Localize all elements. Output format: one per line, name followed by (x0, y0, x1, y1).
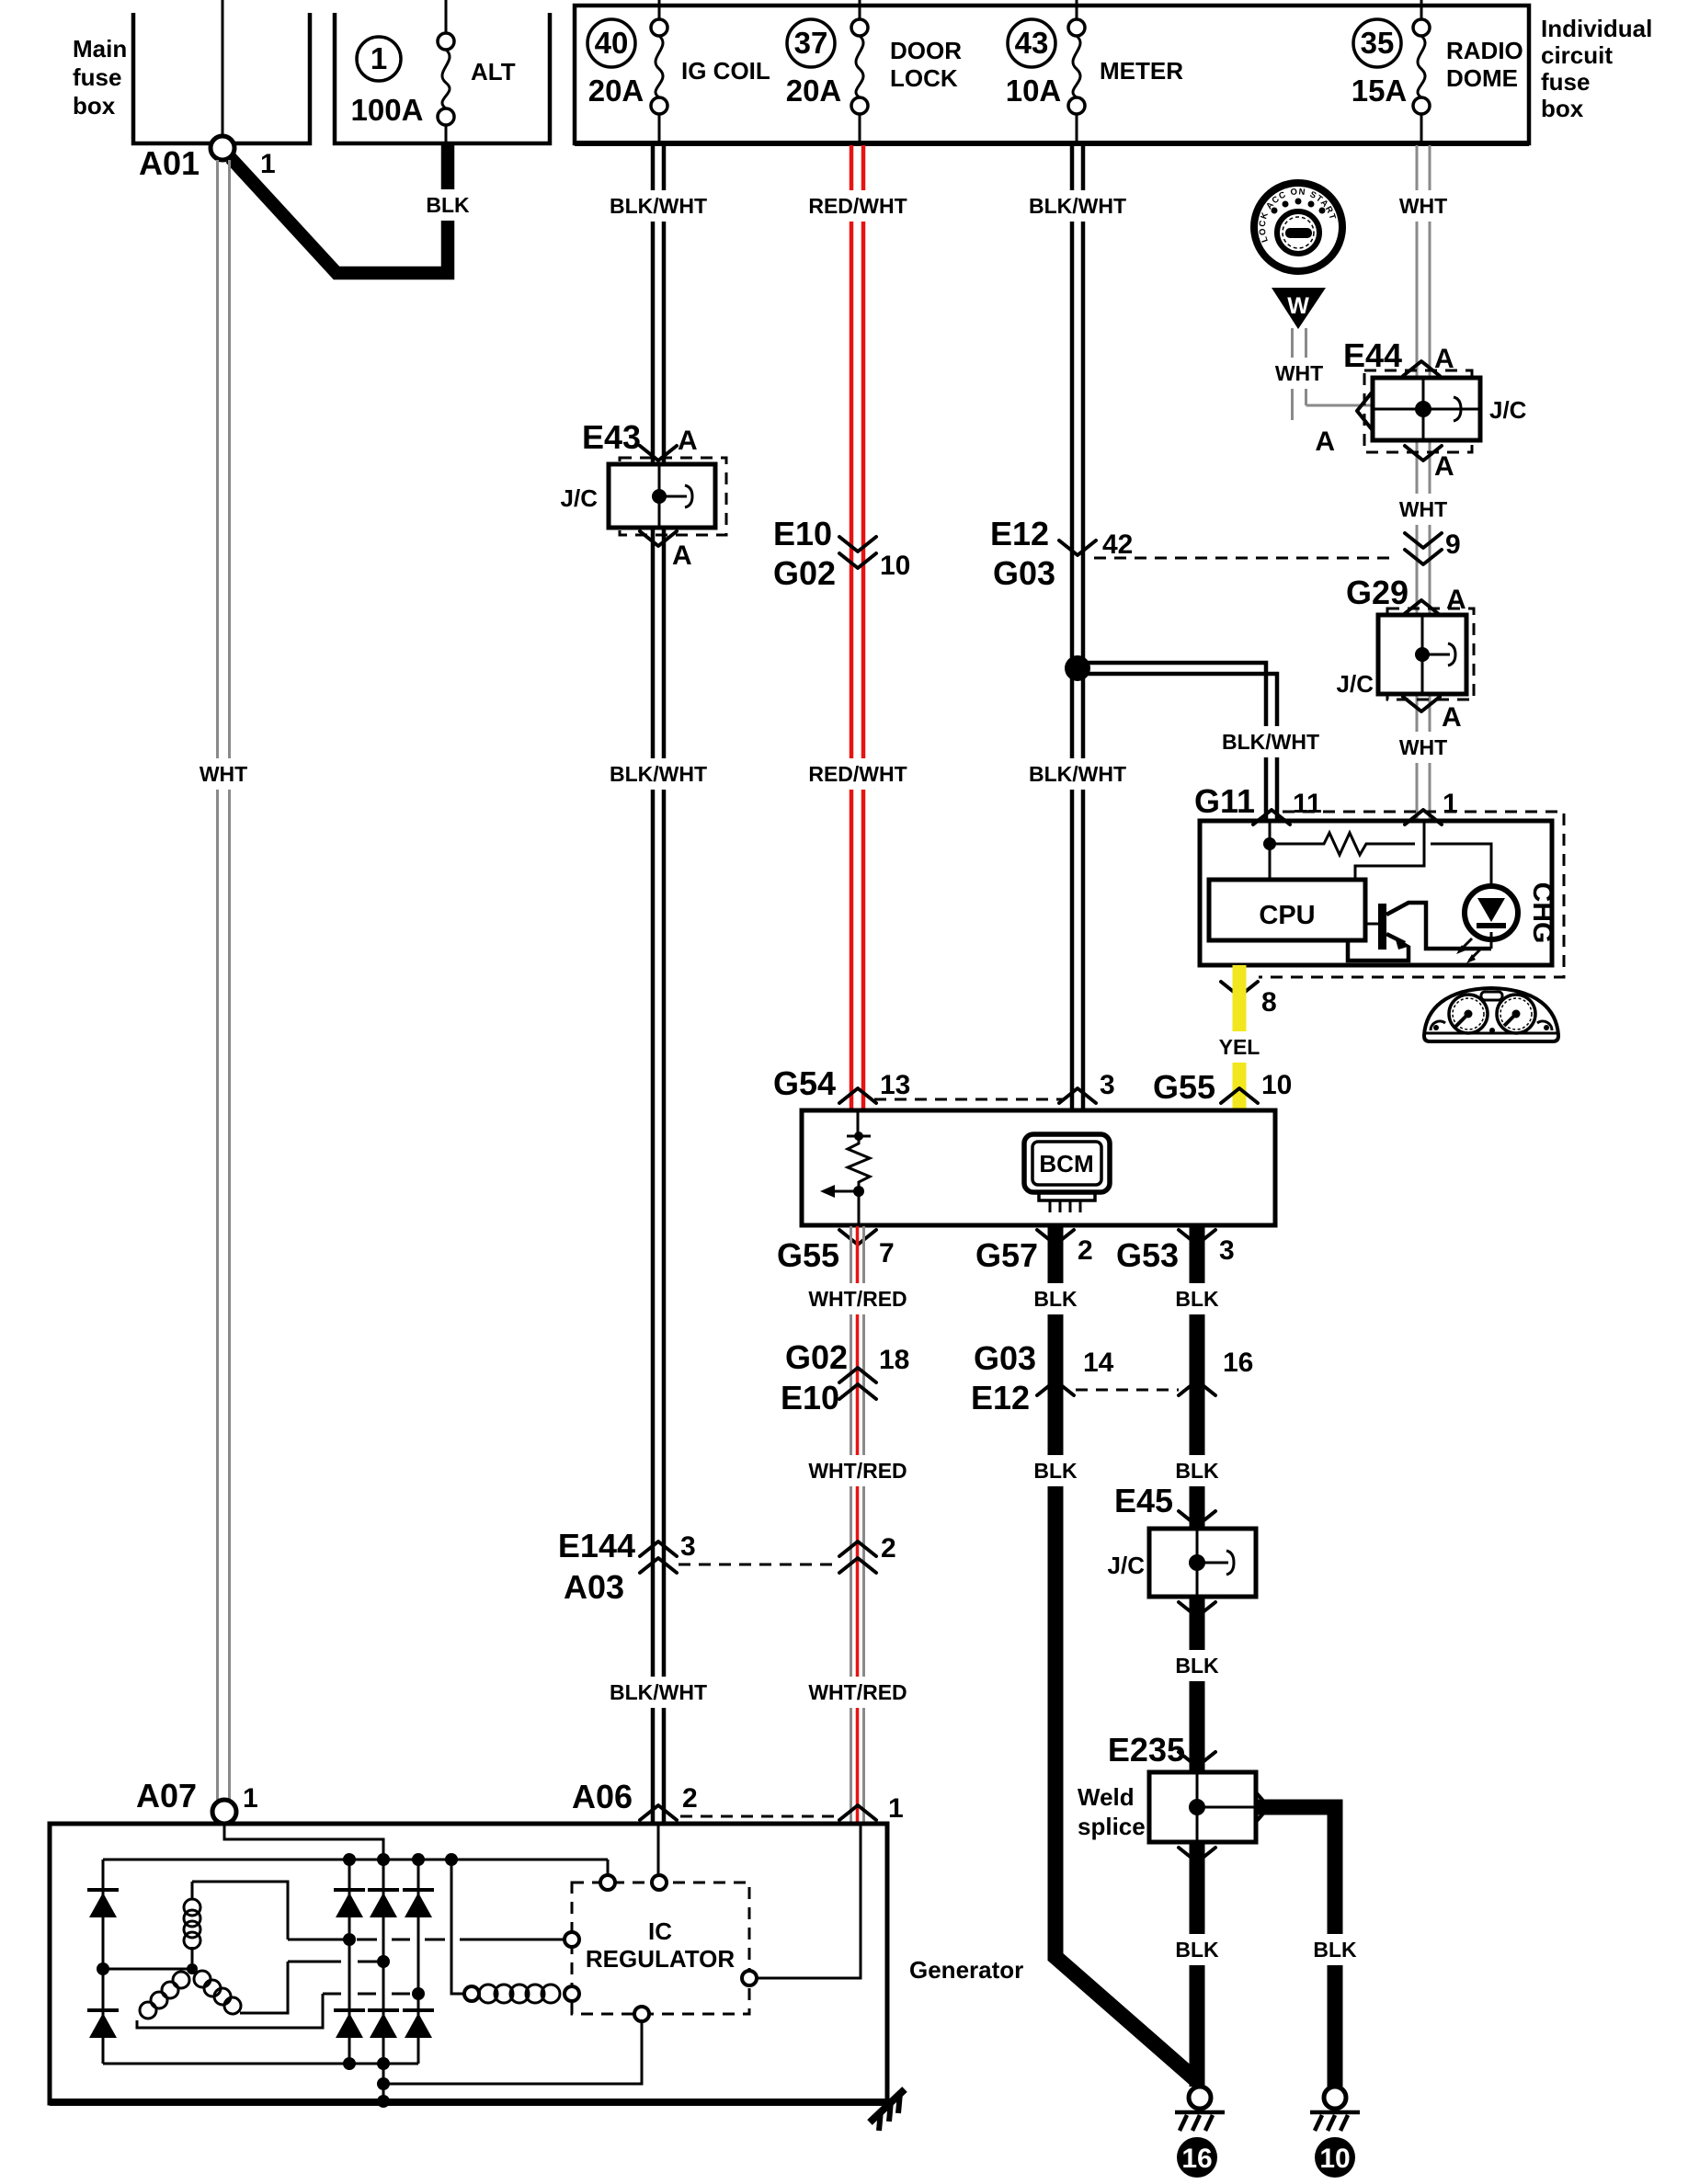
svg-text:BLK: BLK (1313, 1938, 1357, 1962)
transistor Q emitter path with arrow (1386, 934, 1405, 943)
svg-text:box: box (73, 92, 116, 119)
svg-text:A07: A07 (136, 1777, 197, 1814)
wire BLK/WHT from IG COIL fuse (double black) (651, 145, 656, 464)
svg-text:16: 16 (1223, 1348, 1253, 1378)
svg-text:35: 35 (1361, 26, 1395, 60)
diode column left (87, 1860, 119, 2064)
individual circuit fuse box outline (575, 6, 1529, 143)
svg-text:J/C: J/C (1337, 670, 1374, 698)
svg-text:A01: A01 (139, 144, 200, 182)
wire WHT from W triangle (1291, 328, 1294, 420)
svg-text:ALT: ALT (471, 58, 516, 85)
wire RED/WHT from DOOR LOCK fuse (double red) (850, 145, 854, 1110)
svg-text:G29: G29 (1346, 574, 1409, 611)
svg-text:A06: A06 (572, 1778, 633, 1815)
svg-text:Individual: Individual (1541, 15, 1652, 42)
svg-text:WHT: WHT (1399, 497, 1447, 521)
ground 16 (1175, 2087, 1225, 2178)
transistor Q base lead (1365, 923, 1379, 926)
BCM module icon (1024, 1134, 1110, 1212)
svg-text:3: 3 (1100, 1070, 1115, 1100)
IC regulator terminals (600, 1875, 615, 1890)
transistor Q collector path (1386, 903, 1491, 949)
svg-text:3: 3 (680, 1531, 696, 1562)
fuse ALT symbol (445, 0, 448, 33)
connector G02/E10 pin 18 double chevron (839, 1368, 876, 1382)
svg-text:G55: G55 (1153, 1068, 1215, 1106)
svg-text:A: A (1434, 451, 1454, 482)
svg-text:9: 9 (1445, 529, 1461, 560)
fuse 40 20A IG COIL (587, 19, 635, 67)
junction connector G29 (1337, 574, 1474, 733)
svg-text:E43: E43 (582, 418, 641, 456)
svg-text:G55: G55 (777, 1236, 839, 1274)
meter unit solid box (1200, 821, 1552, 965)
svg-text:BLK: BLK (1175, 1938, 1219, 1962)
node G54 pin 13 chevron on RED wire (839, 1088, 876, 1103)
field inductor (464, 1986, 479, 2001)
rectifier bottom rail (103, 2063, 418, 2065)
node A01 terminal (211, 136, 234, 160)
svg-text:42: 42 (1102, 529, 1133, 560)
svg-text:Main: Main (73, 35, 127, 63)
svg-text:A03: A03 (564, 1568, 624, 1606)
svg-text:BLK: BLK (426, 193, 470, 217)
svg-text:BLK/WHT: BLK/WHT (610, 194, 707, 218)
svg-text:WHT/RED: WHT/RED (808, 1459, 907, 1483)
meter pin 8 chevron below box (1221, 982, 1258, 996)
svg-text:BLK: BLK (1175, 1459, 1219, 1483)
svg-text:WHT: WHT (1399, 735, 1447, 759)
transistor Q base bar (1378, 904, 1386, 950)
wire from IC regulator base terminal (383, 2021, 642, 2084)
resistor R inside meter (1270, 833, 1415, 855)
svg-text:YEL: YEL (1219, 1035, 1260, 1059)
node G57 pin 2 chevron below BCM (1037, 1230, 1074, 1245)
fuse 37 20A DOOR LOCK (787, 19, 835, 67)
svg-text:J/C: J/C (1108, 1552, 1146, 1579)
svg-text:BLK/WHT: BLK/WHT (1029, 762, 1126, 786)
BCM pin 3 chevron on BLK/WHT wire (1059, 1088, 1096, 1103)
svg-text:RED/WHT: RED/WHT (808, 194, 907, 218)
svg-text:10: 10 (1319, 2144, 1350, 2174)
diode column 2 (334, 1860, 365, 2064)
W connector triangle (1272, 288, 1326, 329)
svg-text:METER: METER (1100, 57, 1183, 85)
svg-text:E144: E144 (558, 1527, 635, 1564)
IC REGULATOR dashed box (572, 1883, 749, 2014)
wire branch BLK/WHT from junction to G11 (1078, 663, 1266, 821)
svg-text:BLK/WHT: BLK/WHT (1029, 194, 1126, 218)
svg-text:E44: E44 (1343, 336, 1402, 374)
svg-text:WHT/RED: WHT/RED (808, 1680, 907, 1704)
svg-text:2: 2 (881, 1533, 896, 1564)
LED CHG lamp (1465, 886, 1518, 939)
svg-text:43: 43 (1015, 26, 1049, 60)
meter unit dashed connector outline (1259, 812, 1564, 977)
pin 2 double chevron on WHT/RED (839, 1541, 876, 1556)
phase connection row M (288, 1961, 341, 1963)
svg-text:RADIO: RADIO (1446, 37, 1523, 64)
svg-text:20A: 20A (588, 74, 644, 108)
svg-text:15A: 15A (1352, 74, 1408, 108)
wire A01 lead inside box (222, 0, 224, 137)
svg-text:CHG: CHG (1527, 882, 1557, 944)
connector E12/G03 pin 42 chevron on METER wire (1059, 540, 1096, 555)
generator box (50, 1824, 887, 2103)
svg-text:RED/WHT: RED/WHT (808, 762, 907, 786)
rectifier top rail (103, 1859, 608, 1861)
pin 16 chevron (1179, 1381, 1215, 1395)
wire WHT from RADIO DOME fuse (double grey) (1416, 145, 1419, 378)
wire BLK from G57 to ground (thick) (1055, 1226, 1196, 2080)
fuse 1 100A circled label (357, 37, 401, 81)
svg-text:13: 13 (880, 1070, 910, 1100)
instrument cluster icon (1424, 988, 1558, 1041)
ground 10 (1310, 2087, 1360, 2178)
svg-text:G03: G03 (993, 554, 1055, 592)
svg-text:A: A (1446, 585, 1466, 615)
wire from resistor to LED anode (1431, 844, 1491, 887)
svg-text:G54: G54 (773, 1064, 836, 1102)
CPU box (1209, 880, 1365, 940)
main fuse box left compartment (133, 13, 310, 143)
node G55 pin 10 chevron on YEL wire (1221, 1088, 1258, 1103)
svg-text:E12: E12 (990, 515, 1049, 552)
svg-text:20A: 20A (786, 74, 842, 108)
svg-text:10: 10 (880, 551, 910, 581)
field supply column (451, 1860, 464, 1994)
diode column 4 (403, 1860, 434, 2064)
wire WHT from A01 to A07 (double grey) (216, 160, 219, 1800)
svg-text:A: A (678, 426, 698, 456)
svg-text:7: 7 (879, 1238, 895, 1268)
svg-text:10A: 10A (1006, 74, 1062, 108)
pin 1 chevron on WHT/RED (839, 1805, 876, 1820)
dashed link E12-42 to 9 (1094, 557, 1397, 560)
svg-text:fuse: fuse (73, 63, 121, 91)
wire WHT/RED inside generator (757, 1824, 861, 1978)
svg-text:box: box (1541, 95, 1584, 122)
svg-text:100A: 100A (351, 93, 424, 127)
dashed link pin 14 to pin 16 (1076, 1389, 1179, 1392)
junction connector E44 (1315, 336, 1526, 482)
dashed link A06-2 to 1 (680, 1815, 835, 1818)
svg-text:J/C: J/C (561, 484, 599, 512)
svg-text:G02: G02 (785, 1338, 848, 1376)
svg-text:A: A (1434, 344, 1454, 374)
connector G03/E12 pin 14 chevron (1037, 1381, 1074, 1395)
junction connector E45 (1108, 1482, 1256, 1617)
svg-text:BLK/WHT: BLK/WHT (1222, 730, 1319, 754)
junction connector E43 (561, 418, 726, 571)
wire from A06 to IC regulator (657, 1824, 660, 1875)
wire YEL from meter to BCM (1233, 965, 1247, 1110)
wire from meter pin 1 (1355, 821, 1424, 880)
svg-text:splice: splice (1078, 1813, 1146, 1840)
svg-text:Weld: Weld (1078, 1783, 1135, 1811)
phase connection row B (323, 1993, 341, 1996)
svg-text:E45: E45 (1114, 1482, 1173, 1519)
svg-text:WHT/RED: WHT/RED (808, 1287, 907, 1311)
svg-text:A: A (1315, 427, 1335, 457)
svg-text:16: 16 (1181, 2144, 1212, 2174)
svg-text:8: 8 (1261, 987, 1277, 1018)
svg-text:E10: E10 (773, 515, 832, 552)
dashed link G54-13 to 3 (874, 1098, 1063, 1101)
svg-text:40: 40 (595, 26, 629, 60)
svg-text:W: W (1287, 293, 1309, 319)
junction dot inside meter (1263, 837, 1276, 850)
LED light arrows (1459, 938, 1472, 951)
svg-text:1: 1 (243, 1783, 258, 1814)
svg-text:1: 1 (1443, 789, 1458, 819)
ignition key switch symbol (1254, 183, 1342, 271)
svg-text:G02: G02 (773, 554, 836, 592)
svg-text:REGULATOR: REGULATOR (586, 1945, 735, 1973)
svg-text:G53: G53 (1116, 1236, 1179, 1274)
connector A06 pin 2 chevron (640, 1805, 677, 1820)
node G11 pin 11 chevron (1253, 810, 1290, 825)
svg-text:BLK: BLK (1175, 1287, 1219, 1311)
node G55 pin 7 chevron below BCM (839, 1230, 876, 1245)
wire BLK from G53 through E45 and E235 to ground (thick) (1190, 1226, 1205, 1529)
svg-text:G03: G03 (974, 1339, 1036, 1377)
svg-text:DOOR: DOOR (890, 37, 962, 64)
junction dot on METER wire (1065, 655, 1090, 681)
wire from A07 into rectifier (224, 1824, 383, 1860)
svg-text:BLK/WHT: BLK/WHT (610, 1680, 707, 1704)
BCM box (802, 1110, 1275, 1225)
node G53 pin 3 chevron below BCM (1179, 1230, 1215, 1245)
svg-text:CPU: CPU (1259, 901, 1315, 930)
svg-text:fuse: fuse (1541, 68, 1590, 96)
svg-text:BLK/WHT: BLK/WHT (610, 762, 707, 786)
dashed link pin 3 to pin 2 (679, 1564, 837, 1566)
svg-text:A: A (672, 540, 692, 571)
svg-text:BCM: BCM (1039, 1150, 1093, 1177)
svg-text:G11: G11 (1194, 782, 1255, 820)
svg-text:circuit: circuit (1541, 41, 1613, 69)
svg-text:DOME: DOME (1446, 64, 1518, 92)
fuse 35 15A RADIO DOME (1353, 19, 1401, 67)
svg-text:2: 2 (682, 1783, 698, 1814)
wire BLK thick from E235 right side to ground 10 (1256, 1807, 1335, 2087)
junction dot and arrow inside BCM (853, 1186, 864, 1197)
generator case ground (870, 2089, 905, 2131)
svg-text:Generator: Generator (909, 1956, 1023, 1984)
junction connector E235 weld splice (1078, 1731, 1269, 1862)
svg-text:E12: E12 (971, 1379, 1030, 1416)
wire to generator case ground (382, 2064, 385, 2103)
resistor inside BCM (857, 1110, 860, 1132)
connector E144/A03 pin 3 double chevron on BLK/WHT (640, 1541, 677, 1556)
svg-text:1: 1 (888, 1793, 904, 1824)
svg-text:3: 3 (1219, 1235, 1235, 1266)
wire BLK thick from ALT fuse to A01 (231, 145, 448, 273)
connector E10/G02 pin 10 double chevron on RED wire (839, 537, 876, 552)
svg-text:J/C: J/C (1489, 396, 1527, 424)
node A07 terminal (212, 1800, 236, 1824)
svg-text:E235: E235 (1108, 1731, 1185, 1769)
svg-text:37: 37 (794, 26, 828, 60)
svg-text:10: 10 (1261, 1070, 1292, 1100)
svg-text:WHT: WHT (1399, 194, 1447, 218)
svg-text:14: 14 (1083, 1348, 1114, 1378)
svg-text:A: A (1442, 702, 1462, 733)
svg-text:BLK: BLK (1033, 1459, 1078, 1483)
wire BLK/WHT from METER fuse (double black) (1070, 145, 1075, 1110)
fuse 43 10A METER (1008, 19, 1055, 67)
svg-text:11: 11 (1293, 789, 1322, 819)
meter pin 1 chevron on WHT wire (1405, 810, 1442, 825)
svg-text:IC: IC (648, 1917, 672, 1945)
svg-text:LOCK: LOCK (890, 64, 958, 92)
diode column 3 (368, 1860, 399, 2064)
svg-text:IG COIL: IG COIL (681, 57, 770, 85)
phase connection row A (288, 1939, 344, 1941)
svg-text:BLK: BLK (1033, 1287, 1078, 1311)
main fuse box right compartment (ALT) (335, 13, 550, 143)
connector pin 9 double chevron on WHT wire (1405, 533, 1442, 548)
svg-text:WHT: WHT (1275, 361, 1323, 385)
svg-text:1: 1 (260, 149, 276, 179)
wire inside meter from pin 11 (1269, 821, 1272, 880)
svg-text:2: 2 (1078, 1235, 1093, 1266)
stator windings (97, 1882, 323, 2028)
svg-text:G57: G57 (975, 1236, 1038, 1274)
svg-text:E10: E10 (781, 1379, 839, 1416)
svg-text:BLK: BLK (1175, 1654, 1219, 1678)
svg-text:WHT: WHT (200, 762, 247, 786)
svg-text:1: 1 (371, 41, 387, 75)
wire WHT/RED from BCM to generator (850, 1226, 852, 1824)
svg-text:18: 18 (879, 1345, 909, 1375)
